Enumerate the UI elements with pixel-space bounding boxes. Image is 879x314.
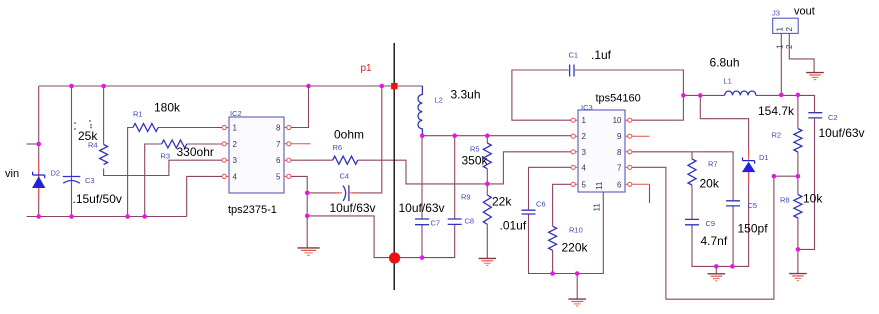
wire ground stem C9 net	[715, 266, 717, 273]
wire IC3 pin 1 to C1 left	[512, 70, 571, 120]
svg-text:10: 10	[613, 116, 622, 125]
connector J3	[773, 18, 799, 49]
wire R8 leads	[797, 176, 799, 249]
op-amp IC3 box tps54160	[571, 110, 632, 212]
svg-text:vout: vout	[794, 6, 815, 18]
svg-text:10uf/63v: 10uf/63v	[330, 201, 376, 215]
wire IC3 pin 6 stub red part	[632, 183, 650, 185]
node red probe dot	[389, 252, 400, 263]
node p1 black probe line	[393, 43, 395, 290]
svg-text:2: 2	[785, 27, 794, 32]
wire R10 bottom lead	[552, 250, 554, 273]
resistor R8	[794, 195, 802, 218]
svg-text:L1: L1	[724, 77, 732, 86]
svg-text:11: 11	[595, 181, 604, 190]
svg-text:4: 4	[582, 163, 587, 172]
wire IC3 pin 9 dangling stub	[632, 135, 650, 137]
svg-text:4: 4	[233, 172, 238, 181]
wire L2 output to IC3 pin 2	[422, 135, 571, 137]
wire R7 to C9	[691, 185, 693, 219]
resistor R3	[162, 140, 187, 148]
svg-text:C6: C6	[536, 199, 546, 208]
wire C3 branch	[71, 86, 73, 217]
wire IC3 pin 8 to C5	[632, 152, 733, 201]
wire vin port stub	[27, 143, 39, 145]
svg-text:p1: p1	[361, 63, 373, 74]
svg-text:20k: 20k	[700, 177, 720, 191]
svg-text:5: 5	[276, 172, 281, 181]
svg-text:C7: C7	[431, 219, 441, 228]
svg-text:.1uf: .1uf	[591, 48, 612, 62]
wire C7 branch lower	[421, 225, 423, 258]
op-amp IC2 box tps2375-1	[222, 117, 291, 193]
wire C5 bottom lead	[732, 206, 734, 267]
wire R1 left vertical	[128, 128, 133, 217]
svg-text:2: 2	[233, 140, 238, 149]
svg-text:C4: C4	[340, 172, 350, 181]
svg-text:IC2: IC2	[230, 109, 242, 118]
capacitor C2	[808, 113, 822, 118]
wire C8 branch upper	[454, 136, 456, 219]
wire L1 to vout node and C2	[756, 95, 815, 112]
wire C4 right lead to rail	[352, 86, 382, 193]
wire ground stem mid bottom	[576, 274, 578, 299]
svg-text:5: 5	[582, 180, 587, 189]
capacitor C6	[522, 210, 536, 214]
svg-text:L2: L2	[435, 95, 443, 104]
svg-text:11: 11	[593, 203, 602, 212]
svg-text:R7: R7	[708, 159, 718, 168]
resistor R7	[688, 159, 696, 185]
wire ground stem R8	[797, 249, 799, 273]
svg-text:R2: R2	[772, 130, 782, 139]
wire IC2 pin 6 to R6	[291, 159, 333, 161]
capacitor C5	[726, 201, 740, 206]
wire IC3 pin 7 to feedback node	[632, 167, 774, 299]
capacitor C1	[570, 65, 574, 77]
svg-text:tps2375-1: tps2375-1	[228, 204, 277, 216]
resistor R2	[794, 129, 802, 152]
resistor R6	[333, 156, 358, 164]
wire SW node to L1	[683, 94, 724, 96]
svg-text:D1: D1	[759, 153, 769, 162]
svg-text:220k: 220k	[562, 241, 589, 255]
svg-text:R3: R3	[161, 151, 171, 160]
svg-text:10k: 10k	[803, 192, 823, 206]
capacitor C9	[685, 219, 699, 224]
wire IC2 pin 7 dangling stub	[291, 143, 311, 145]
resistor R1	[133, 124, 158, 132]
stray dots near 25k	[74, 120, 92, 130]
svg-text:J3: J3	[772, 8, 780, 17]
ground G5 under R8	[789, 274, 807, 281]
wire top rail vin net	[39, 85, 423, 87]
wire feedback link to R2 R8	[774, 175, 798, 177]
svg-text:7: 7	[617, 163, 622, 172]
wire R6 to IC3 pin 3	[358, 152, 572, 184]
svg-text:1: 1	[776, 44, 785, 49]
ground G2 under R9	[479, 258, 497, 265]
wire ground net to p1 vertical	[307, 216, 455, 258]
ground G6 J3 pin2	[806, 73, 824, 80]
wire R2 leads	[797, 95, 799, 176]
svg-text:6.8uh: 6.8uh	[710, 56, 740, 70]
svg-text:R5: R5	[470, 145, 480, 154]
svg-text:10uf/63v: 10uf/63v	[399, 201, 445, 215]
wire R3 to IC2 pin 2	[187, 143, 223, 145]
diode D2	[33, 161, 45, 200]
wire SW jog to D1	[700, 95, 748, 155]
capacitor C4	[334, 185, 360, 201]
ground G4 under C9 net	[708, 274, 726, 281]
svg-text:9: 9	[617, 132, 622, 141]
node junction dots	[36, 84, 800, 276]
svg-text:1: 1	[776, 27, 785, 32]
wire C9 bottom net to D1	[692, 169, 749, 267]
svg-text:vin: vin	[5, 168, 19, 180]
svg-text:C8: C8	[465, 216, 475, 225]
svg-text:330ohr: 330ohr	[177, 145, 214, 159]
svg-text:C9: C9	[706, 219, 716, 228]
wire C2 bottom to R8 ground	[798, 118, 815, 250]
svg-text:C5: C5	[748, 201, 758, 210]
svg-text:3: 3	[582, 148, 587, 157]
wire IC3 pin 6 dangling	[649, 184, 651, 203]
resistor R9	[483, 195, 491, 224]
resistor R4	[100, 145, 108, 165]
resistor R10	[549, 226, 557, 250]
wire ground stem IC2 area	[306, 216, 308, 248]
svg-text:3: 3	[233, 156, 238, 165]
svg-text:R10: R10	[569, 225, 583, 234]
wire R5 leads	[486, 136, 488, 184]
resistor R5	[483, 143, 491, 169]
svg-text:tps54160: tps54160	[596, 93, 641, 105]
svg-text:R6: R6	[333, 143, 343, 152]
svg-text:2: 2	[785, 44, 794, 49]
svg-text:C2: C2	[828, 113, 838, 122]
svg-text:6: 6	[617, 180, 622, 189]
svg-text:R9: R9	[461, 193, 471, 202]
wire J3 pin 1 drop	[780, 33, 782, 95]
svg-text:2: 2	[582, 132, 587, 141]
ground G3 mid bottom	[568, 299, 586, 306]
wire IC2 pin 5 down	[291, 176, 307, 216]
capacitor C3	[63, 177, 81, 184]
svg-text:.15uf/50v: .15uf/50v	[73, 192, 122, 206]
ground G1 under IC2 pin5 net	[298, 248, 320, 255]
svg-text:8: 8	[617, 148, 622, 157]
svg-text:0ohm: 0ohm	[334, 128, 364, 142]
wire C1 right to SW node	[575, 70, 683, 95]
wire C6 bottom net to pin 11	[529, 192, 604, 273]
wire C4 left lead	[307, 192, 340, 194]
wire rail riser to IC2 pin 4	[187, 176, 222, 216]
svg-text:10uf/63v: 10uf/63v	[819, 126, 865, 140]
svg-text:3.3uh: 3.3uh	[451, 88, 481, 102]
svg-text:6: 6	[276, 156, 281, 165]
svg-text:154.7k: 154.7k	[758, 104, 795, 118]
svg-text:1: 1	[582, 116, 587, 125]
svg-text:7: 7	[276, 140, 281, 149]
wire R4 bottom to IC2 pin 3	[104, 160, 222, 175]
svg-text:180k: 180k	[154, 101, 181, 115]
svg-text:8: 8	[276, 124, 281, 133]
inductor L2	[418, 86, 422, 136]
svg-text:C3: C3	[85, 176, 95, 185]
wire IC3 pin 5 to R10	[553, 184, 572, 226]
wire R9 leads	[486, 184, 488, 258]
inductor L1	[725, 91, 756, 95]
wire IC2 pin 8 to rail	[291, 86, 309, 128]
wire R4 top lead	[103, 86, 105, 145]
wire IC3 pin 10 to SW	[632, 95, 684, 120]
svg-text:.01uf: .01uf	[500, 219, 527, 233]
svg-text:R4: R4	[88, 141, 98, 150]
svg-text:IC3: IC3	[581, 103, 593, 112]
svg-text:350k: 350k	[462, 154, 489, 168]
wire C7 branch upper	[421, 136, 423, 219]
wire left vertical through D2	[38, 86, 40, 217]
svg-text:150pf: 150pf	[738, 222, 769, 236]
svg-text:4.7nf: 4.7nf	[701, 234, 728, 248]
wire R3 left vertical	[145, 144, 162, 217]
svg-text:D2: D2	[51, 169, 61, 178]
wire R1 to IC2 pin 1	[158, 127, 222, 129]
wire IC3 pin 4 to C6	[529, 167, 572, 210]
svg-text:1: 1	[233, 124, 238, 133]
wire ground stem R9	[486, 257, 488, 259]
wire J3 pin 2 to ground	[789, 33, 814, 72]
wire R7 top lead	[691, 152, 693, 159]
diode D1	[743, 147, 755, 184]
svg-text:R8: R8	[780, 196, 790, 205]
node p1 red square marker	[391, 83, 397, 89]
svg-text:R1: R1	[133, 109, 143, 118]
capacitor C8	[448, 219, 462, 224]
capacitor C7	[415, 219, 429, 225]
wire bottom left rail	[27, 216, 187, 218]
svg-text:C1: C1	[569, 51, 579, 60]
svg-text:22k: 22k	[492, 195, 512, 209]
